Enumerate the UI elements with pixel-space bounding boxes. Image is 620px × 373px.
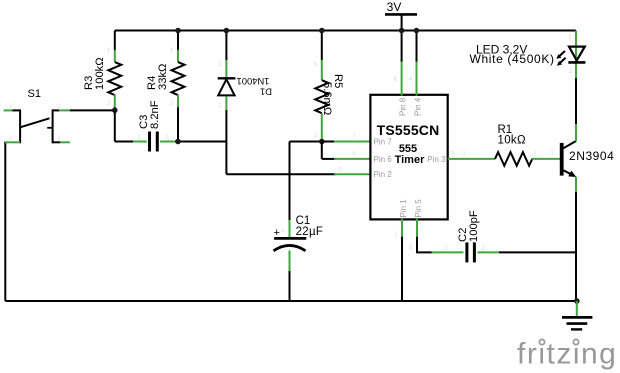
wire R4 top [177,31,179,51]
svg-text:Pin 5: Pin 5 [414,199,423,218]
R1 zigzag [495,152,532,166]
LED arrow 1 [559,51,565,56]
ground [562,317,592,329]
svg-text:fritzing: fritzing [517,338,617,371]
svg-text:3V: 3V [387,0,402,14]
svg-text:+: + [274,227,280,239]
LED triangle [569,47,585,61]
svg-text:33kΩ: 33kΩ [157,64,169,90]
ground stem [576,301,578,317]
R4 top junction dot [175,28,181,34]
wire R5 top [321,31,323,61]
svg-text:Timer: Timer [395,154,425,166]
svg-text:Pin 2: Pin 2 [374,170,393,179]
wire C3 to R4 node [175,141,226,143]
wire pin4 [416,31,418,63]
C2 left plate [465,242,468,262]
wire node down to pin6 row [321,142,323,159]
svg-text:100pF: 100pF [468,210,480,242]
label R5 5.6m [321,74,344,115]
S1 right top stub [53,109,60,111]
svg-text:22µF: 22µF [296,226,324,238]
wire bottom ground rail [5,300,577,302]
node A junction dot [112,107,118,113]
C1 curved bottom plate [274,245,306,250]
svg-text:Pin 3: Pin 3 [427,155,446,164]
D1 cathode bar [218,77,236,79]
wire node A down [114,110,116,141]
svg-text:White (4500K): White (4500K) [470,52,555,66]
power supply 3V bar [385,13,417,16]
label R3 100k [83,57,106,90]
wire C1 top [289,142,291,221]
wire pin5 down [416,219,418,238]
wire D1 to pin2 [226,173,336,175]
wire R5 bottom [321,114,323,140]
faint pin numbers [9,35,573,265]
wire emitter down [575,177,577,193]
svg-text:8.2nF: 8.2nF [149,100,161,129]
R5 bottom junction dot [319,139,325,145]
C3 left plate [148,132,151,152]
C3 right plate [156,132,159,152]
svg-text:Pin 1: Pin 1 [399,199,408,218]
switch S1 [4,88,70,143]
Q1 emitter line [563,170,573,175]
LED arrow 2 [560,58,566,63]
wire node A to C3 [115,141,135,143]
svg-text:+: + [281,229,285,235]
svg-text:D1: D1 [260,87,272,98]
wire D1 bottom [225,96,227,110]
label C2 100pF [457,210,480,242]
R4 bottom junction dot [175,139,181,145]
wire R3 top [114,31,116,51]
wire to pin6 [322,158,336,160]
wire S1 to node A [70,109,115,111]
R4 zigzag [172,62,185,95]
Q1 base bar [560,143,564,176]
capacitor C2 [432,210,577,262]
D1 top junction dot [224,28,230,34]
logo i-dot rings [539,338,546,347]
wire top power rail [115,30,576,32]
LED cathode bar [568,61,585,64]
resistor R5 [315,31,344,142]
wire pin3 to R1 [448,158,495,160]
svg-text:Pin 7: Pin 7 [374,138,393,147]
diode D1 [218,31,272,175]
S1 left contact bar [19,109,21,143]
wire left column from switch to rail [4,142,6,302]
ground junction dot [574,298,580,304]
C2 right plate [473,242,476,262]
svg-text:10kΩ: 10kΩ [498,135,526,147]
wire through LED [575,47,577,79]
pin4 junction dot [414,28,420,34]
svg-text:5.6mΩ: 5.6mΩ [321,82,333,115]
S1 right bottom stub [53,141,61,143]
wire pin8 [401,31,403,63]
resistor R3 [83,31,121,111]
svg-text:Pin 8: Pin 8 [399,97,408,116]
svg-text:Pin 6: Pin 6 [374,155,393,164]
svg-text:S1: S1 [28,88,41,100]
svg-text:2N3904: 2N3904 [569,149,614,163]
svg-text:TS555CN: TS555CN [377,122,440,138]
R3 zigzag [108,62,121,95]
svg-text:Pin 4: Pin 4 [413,97,422,116]
R5 top junction dot [319,28,325,34]
wire R5 node to C1 corner [290,141,322,143]
wire 3V stem [401,14,403,30]
wire D1 top [225,31,227,61]
op-amp U1 timer IC body [370,95,447,220]
wire C2 to emitter column [499,251,576,253]
wire C1 bottom [289,251,291,272]
svg-text:-: - [282,259,284,265]
wire R4 bottom [177,95,179,108]
wire pin2 green [334,173,370,175]
transistor Q1 2N3904 [560,141,615,177]
S1 left bottom stub [5,141,20,143]
S1 left top stub [12,109,20,111]
S1 blade tick [47,127,52,129]
3V junction dot [399,28,405,34]
S1 blade [20,118,49,127]
wire R1 to base [532,158,560,160]
wire pin1 down to rail [401,219,403,238]
resistor R4 [146,31,185,142]
LED D2 [470,31,586,142]
wire rail to LED [575,31,577,47]
svg-text:100kΩ: 100kΩ [94,57,106,90]
svg-text:1N4001: 1N4001 [237,76,270,87]
Q1 emitter arrow [568,171,576,177]
C1 top plate [274,237,306,240]
resistor R1 [448,124,560,166]
S1 right contact bar [52,109,54,143]
wire R3 bottom [114,95,116,108]
wire node to pin7 [322,141,336,143]
capacitor C1 [274,142,324,302]
Q1 collector line [563,141,576,148]
capacitor C3 [133,100,176,151]
label R4 33k [146,64,169,90]
D1 triangle [218,79,234,95]
R5 zigzag [315,80,328,113]
label C3 8.2nF [138,100,161,129]
wire LED to collector [575,78,577,124]
